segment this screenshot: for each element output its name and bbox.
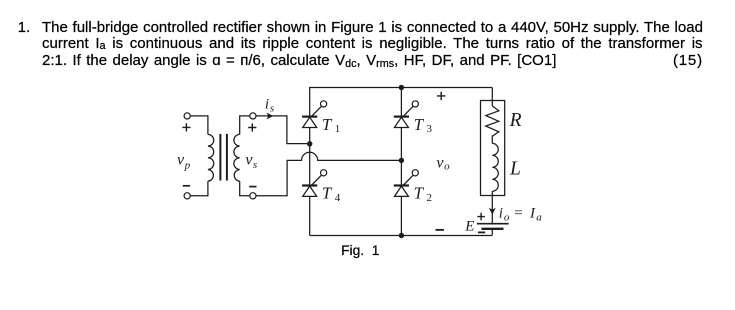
node B junction dot xyxy=(399,158,404,163)
arrow io current xyxy=(489,208,496,215)
svg-text:i: i xyxy=(499,206,503,222)
thyristor T2 xyxy=(394,170,419,197)
svg-text:a: a xyxy=(536,211,542,223)
wire: secondary bottom lead xyxy=(240,181,250,196)
terminal primary top xyxy=(184,113,190,119)
terminal secondary top xyxy=(250,113,256,119)
label T4 xyxy=(322,184,341,204)
battery E top plate xyxy=(477,223,509,225)
label L xyxy=(509,158,521,179)
svg-text:s: s xyxy=(270,103,274,115)
thyristor T4 xyxy=(302,170,327,197)
svg-text:1: 1 xyxy=(335,123,341,135)
svg-text:o: o xyxy=(444,161,450,173)
svg-text:=: = xyxy=(513,205,523,221)
label E xyxy=(464,219,474,235)
node top-right junction dot xyxy=(399,85,404,90)
node bottom-right junction dot xyxy=(399,233,404,238)
wire: top rail xyxy=(310,87,493,89)
svg-text:R: R xyxy=(509,110,522,131)
transformer core xyxy=(219,134,228,181)
terminal primary bottom xyxy=(184,193,190,199)
svg-text:T: T xyxy=(414,184,425,203)
label T3 xyxy=(414,115,433,135)
wire: primary top lead xyxy=(190,116,208,134)
label vo xyxy=(436,154,450,172)
figure caption Fig. 1 xyxy=(341,243,379,258)
label is xyxy=(265,96,274,114)
plus sign output top xyxy=(437,92,445,100)
label T2 xyxy=(414,184,432,204)
svg-text:s: s xyxy=(253,159,257,171)
minus sign output bottom xyxy=(436,229,444,231)
node A junction dot xyxy=(307,141,312,146)
wire: secondary top lead xyxy=(240,116,250,134)
wire: right rail xyxy=(400,88,402,236)
question number xyxy=(18,20,31,35)
svg-text:T: T xyxy=(322,115,333,134)
wire: battery to bottom rail xyxy=(491,229,493,236)
transformer primary winding xyxy=(208,134,214,181)
svg-text:3: 3 xyxy=(427,123,433,135)
label vp xyxy=(177,152,191,172)
marks (15) xyxy=(673,53,703,68)
svg-text:p: p xyxy=(184,159,191,171)
svg-text:L: L xyxy=(509,158,521,179)
label io = Ia xyxy=(499,205,543,223)
svg-text:T: T xyxy=(414,115,425,134)
label vs xyxy=(245,152,257,171)
text line 2 xyxy=(42,36,703,53)
svg-text:2: 2 xyxy=(427,192,433,204)
arrow is current xyxy=(266,113,273,120)
svg-text:T: T xyxy=(322,184,333,203)
load box xyxy=(481,101,505,196)
inductor L xyxy=(492,143,498,191)
plus sign secondary xyxy=(248,123,256,131)
wire: bottom rail xyxy=(310,235,492,237)
minus sign primary xyxy=(183,185,190,187)
thyristor T1 xyxy=(302,101,327,128)
wire: secondary bottom to bridge node B with hop over left rail xyxy=(256,152,399,196)
wire: secondary top to bridge node A xyxy=(256,116,307,144)
wire: load to battery xyxy=(491,191,493,224)
wire: primary bottom lead xyxy=(190,181,208,196)
thyristor T3 xyxy=(394,101,419,128)
battery E bottom plate xyxy=(481,228,503,230)
resistor R xyxy=(486,106,499,143)
wire: left rail xyxy=(309,87,311,236)
label R xyxy=(509,110,522,131)
svg-text:i: i xyxy=(265,96,269,112)
wire: top rail into load xyxy=(491,88,493,107)
transformer secondary winding xyxy=(234,134,240,181)
text line 3 xyxy=(42,53,556,70)
svg-text:E: E xyxy=(464,219,474,235)
plus sign primary xyxy=(182,123,190,131)
label T1 xyxy=(322,115,340,135)
svg-text:I: I xyxy=(529,205,536,221)
minus sign secondary xyxy=(249,186,256,188)
text line 1 xyxy=(42,20,703,35)
minus sign battery xyxy=(478,231,485,233)
terminal secondary bottom xyxy=(250,193,256,199)
plus sign battery xyxy=(477,213,485,221)
svg-text:o: o xyxy=(504,211,510,223)
svg-text:4: 4 xyxy=(335,192,341,204)
